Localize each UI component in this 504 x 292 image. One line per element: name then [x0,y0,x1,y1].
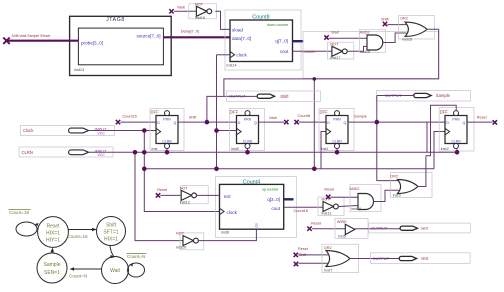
svg-text:inst: inst [152,147,159,151]
state machine: self loop on Reset (Count/=16) [9,210,39,237]
net label Wait (DFF2 Q) [269,116,277,120]
net label Sample (DFF3 Q) [354,115,367,119]
wire Count16 X to DFF1 D [120,121,156,123]
wire Reset X to NOT inst12 [160,194,181,196]
svg-text:Q: Q [463,121,466,125]
state machine: state Wait [102,257,129,284]
svg-text:Shift: Shift [280,94,289,99]
svg-text:Shift: Shift [381,18,390,22]
wire NOT inst20 output to Count4 bottom port [198,229,256,240]
svg-text:inst15: inst15 [360,50,370,54]
svg-text:Sample: Sample [436,93,451,98]
junction CLRN DFF4 [455,150,460,155]
and gate inst15 [359,30,385,54]
not gate inst12 [180,186,209,205]
junction CLRN riser x144 [142,150,147,155]
node Reset X marker (to WIRE inst5) [307,227,311,231]
svg-text:Reset: Reset [477,116,488,120]
svg-text:OUTPUT: OUTPUT [371,226,388,231]
svg-text:inst13: inst13 [74,68,84,72]
wire Sample vertical to OR2 inst9 top input [377,96,400,181]
wire Wait X to AND2 inst15 top input [329,37,367,39]
wire Reset X to buffer inst5 [312,228,345,230]
wire CLRN riser DFF2 [247,149,249,152]
net label Shift (to OR2 inst7) [299,253,308,257]
svg-text:WIRE: WIRE [337,220,347,224]
svg-text:Count16: Count16 [294,209,308,213]
svg-text:Q: Q [344,121,347,125]
or gate inst9 [390,173,432,198]
svg-text:data[7..0]: data[7..0] [232,36,251,41]
svg-text:Count16: Count16 [122,115,136,119]
wire OR2 inst16 output down-left [224,29,439,96]
output pin HIY [369,223,471,233]
svg-text:JTAG8: JTAG8 [106,17,125,23]
node Reset X marker (to OR2 inst7) [294,253,298,257]
or gate inst16 [399,16,435,42]
wire Shift X to OR2 inst7 bottom input [298,262,328,264]
wire DFF4 clock riser [434,132,445,169]
wire AND2 inst19 output to OR2 inst9 [374,190,399,201]
svg-text:CountN: CountN [302,50,315,54]
svg-text:inst0: inst0 [231,147,239,151]
svg-text:Q: Q [254,121,257,125]
net label CountN (cout of Count8) [302,50,315,54]
svg-text:Count8: Count8 [252,14,269,20]
svg-text:PRN: PRN [452,118,460,122]
node Wait X terminator [284,120,288,124]
svg-text:D: D [446,121,449,125]
svg-text:Count=N: Count=N [127,254,145,259]
svg-text:AND2: AND2 [349,187,359,191]
junction Shift output riser [205,120,210,125]
svg-text:Sample: Sample [44,262,61,268]
wire Wait X to NOT inst18 input [174,10,196,12]
svg-text:NOT: NOT [176,232,185,236]
svg-text:Reset: Reset [298,247,309,251]
wire OR2 inst7 output to HIX pin [350,258,399,260]
wire DFF1 Q to DFF2 D (Shift net) [178,121,237,123]
svg-text:Count=16: Count=16 [68,234,88,239]
svg-text:Q: Q [174,121,177,125]
svg-text:D: D [157,121,160,125]
svg-text:CountN: CountN [298,114,311,118]
not gate inst11 [318,197,344,216]
svg-text:HIY=1: HIY=1 [46,238,60,244]
wire Reset X to OR2 inst7 top input [298,254,328,256]
wire DFF4 Q to Reset X [467,121,493,123]
wire clock distribution horizontal y168.8 [144,168,434,170]
wire CLRN riser DFF3 [336,149,338,152]
svg-text:NOT: NOT [180,187,189,191]
svg-text:D: D [238,121,241,125]
wire branch down to distribution line [313,79,315,169]
wire Shift X to OR2 inst16 top input [387,24,407,26]
bus wire into probe[3..0] [8,40,79,42]
net label Wait (top) [177,6,185,10]
svg-text:VCC: VCC [98,153,106,157]
buffer (WIRE primitive) inst5 [335,219,368,239]
node Reset X marker (to AND2 inst19) [326,195,330,199]
svg-text:Delay[7..0]: Delay[7..0] [181,29,199,33]
node Reset X terminator [493,120,497,124]
node Shift X marker (to OR2 inst16) [383,22,387,26]
svg-text:CLRN: CLRN [451,140,461,144]
svg-text:up counter: up counter [262,187,280,191]
wire NOT inst11 output to AND2 inst19 [338,206,358,207]
svg-text:Sample: Sample [354,115,367,119]
dff flip-flop inst2 (DFF4) [439,108,474,152]
wire AND2 inst15 output to OR2 inst16 [383,33,407,43]
node Count16 X marker (DFF1 D) [116,120,120,124]
state machine: edge Shift to Wait [110,246,115,259]
svg-text:OR2: OR2 [390,175,398,179]
wire Shift riser to OUTPUT pin [207,96,257,122]
svg-text:Wait: Wait [110,268,120,274]
svg-text:Wait: Wait [331,30,339,34]
wire CLRN riser DFF1 [166,149,168,152]
svg-text:OUTPUT: OUTPUT [373,256,390,261]
or gate inst7 [322,244,359,272]
svg-text:DFF: DFF [320,109,329,114]
wire Count8 cout to NOT inst17 [293,50,332,52]
svg-text:clock: clock [236,52,247,57]
svg-text:VCC: VCC [98,131,106,135]
svg-text:CLRN: CLRN [243,140,253,144]
block JTAG8 inst13 [70,16,172,75]
wire Reset X to AND2 inst19 top input [331,196,358,198]
svg-text:inst5: inst5 [338,235,346,239]
svg-text:OUTPUT: OUTPUT [229,94,246,99]
node Wait X marker (to AND2 inst15) [324,35,328,39]
wire DFF3 Q to DFF4 D (Sample net) [348,121,445,123]
wire Sample riser to OUTPUT pin [377,95,414,97]
node Shift X marker (to OR2 inst7) [294,262,298,266]
junction CLRN DFF1 [165,150,170,155]
svg-text:inst2: inst2 [441,147,449,151]
state machine: self loop on Wait (Count/=N) [127,254,147,278]
output pin Sample [377,91,471,102]
not gate inst18 [189,2,217,20]
svg-text:HIX=1: HIX=1 [104,237,118,243]
junction CLRN DFF3 [335,150,340,155]
svg-text:cout: cout [271,206,280,211]
svg-text:PRN: PRN [244,118,252,122]
net label Reset (DFF4 Q) [477,116,488,120]
svg-text:inst19: inst19 [351,207,361,211]
svg-text:SFT=1: SFT=1 [103,230,118,236]
svg-text:CLRN: CLRN [162,140,172,144]
net label Delay[7..0] [181,29,199,33]
junction x144 y168.8 [142,167,147,172]
svg-text:HIY: HIY [421,226,428,231]
svg-text:inst20: inst20 [176,246,186,250]
net label Shift (OR2 input) [381,18,390,22]
output pin Shift [227,91,321,102]
wire preset feed to DFF4 PRN [426,105,456,156]
svg-text:DFF: DFF [440,109,449,114]
svg-text:source[7..0]: source[7..0] [136,33,160,38]
counter block Count8 inst14 [225,10,301,70]
svg-text:probe[3..0]: probe[3..0] [81,40,103,45]
net label Count16 (Count4 cout) [294,209,308,213]
net label CountN (DFF3 D) [298,114,311,118]
dff flip-flop inst (DFF1) [150,109,184,152]
svg-text:q[3..0]: q[3..0] [267,197,280,202]
junction CLRN inst20 riser [133,150,138,155]
selection box around top-right gate group [303,32,439,79]
svg-text:SEN=1: SEN=1 [44,270,60,276]
svg-text:Shift: Shift [106,223,117,229]
svg-text:Clock: Clock [23,128,34,133]
bus stub q[3..0] of Count4 [284,198,294,200]
junction at y78.9 branch [313,77,317,81]
and gate inst19 [349,185,381,212]
bus stub q[7..0] of Count8 [293,40,304,42]
net label Count16 (DFF1 D) [122,115,136,119]
wire clock riser x216.5 Count8-DFF2 [216,55,218,169]
wire buffer inst5 output to HIY pin [355,228,400,230]
svg-text:Reset: Reset [311,221,322,225]
net label Reset (to inst12) [157,188,168,192]
net label Reset (to OR2 inst7) [298,247,309,251]
wire Count8 clock feed [217,54,231,56]
net label Shift (DFF1 Q) [189,116,198,120]
wire NOT inst17 output to AND2 inst15 [347,46,367,51]
junction clock-DFF2 riser [214,128,219,133]
wire clock riser x144 down to Count4 clock [144,131,219,212]
node probe input X marker [3,38,9,44]
input pin CLRN [19,147,113,157]
svg-text:Count=16: Count=16 [9,210,29,215]
svg-text:OR2: OR2 [324,246,332,250]
wire CountN X to DFF3 D [299,121,326,123]
junction CLRN DFF2 [245,150,250,155]
svg-text:inst17: inst17 [330,56,340,60]
wire NOT inst18 output to sload [215,11,230,29]
node Reset X marker (to inst12) [156,193,160,197]
svg-text:q[7..0]: q[7..0] [275,39,288,44]
svg-text:OR2: OR2 [400,17,408,21]
state machine: state Shift [97,217,126,246]
svg-text:DFF: DFF [230,109,239,114]
svg-text:inst9: inst9 [393,194,401,198]
svg-text:Reset: Reset [46,224,60,230]
state machine: edge Reset to Shift (Count=16) [68,228,97,239]
svg-text:Count4: Count4 [243,180,260,186]
not gate inst20 [176,232,204,250]
svg-text:HIX=1: HIX=1 [46,231,60,237]
junction Sample output riser [375,120,380,125]
wire OR2 inst9 output up to DFF4 preset [418,156,426,187]
net label Reset (to WIRE inst5) [311,221,322,225]
svg-text:inst18: inst18 [195,16,205,20]
svg-text:inst8: inst8 [221,231,229,235]
svg-text:Count=N: Count=N [69,274,87,279]
svg-text:down counter: down counter [267,23,289,27]
state machine: edge Wait to Sample (Count=N) [69,267,102,278]
svg-text:CLRN: CLRN [22,150,33,155]
svg-text:AND2: AND2 [360,30,370,34]
bus wire source to data (Delay[7..0]) [163,36,230,38]
svg-text:sclr: sclr [224,194,232,199]
not gate inst17 [327,42,353,60]
junction x216.5 y168.8 [214,167,219,172]
dff flip-flop inst1 (DFF3) [319,109,354,152]
svg-text:Wait: Wait [269,116,277,120]
wire CLRN distribution [89,151,458,153]
junction clock-DFF1 riser [142,128,147,133]
svg-text:Shift: Shift [189,116,198,120]
input pin Clock [21,126,115,136]
state machine: edge Sample to Reset [50,248,54,253]
svg-text:inst1: inst1 [321,147,329,151]
svg-text:inst7: inst7 [324,269,332,273]
svg-text:inst16: inst16 [402,38,412,42]
net label Reset (to AND2 inst19) [324,187,335,191]
svg-text:clock: clock [227,210,238,215]
svg-text:D: D [327,121,330,125]
svg-text:cin: cin [255,223,259,227]
wire Clock pin to DFF1 clock [89,130,157,132]
svg-text:PRN: PRN [333,118,341,122]
wire NOT inst12 output to sclr [197,194,220,196]
wire DFF2 Q to Wait X [259,121,285,123]
svg-text:OUTPUT: OUTPUT [385,93,402,98]
svg-text:CLRN: CLRN [332,140,342,144]
svg-text:HIX: HIX [421,256,428,261]
counter block Count4 inst8 [216,177,297,238]
svg-text:Wait: Wait [177,6,185,10]
svg-text:NOT: NOT [330,42,339,46]
wire DFF3 clock riser [321,132,326,169]
svg-text:Reset: Reset [324,187,335,191]
node Wait X marker (to inst18) [169,9,173,13]
state machine: state Sample [37,253,67,283]
svg-text:cout: cout [280,49,289,54]
svg-text:PRN: PRN [163,118,171,122]
svg-text:sload: sload [232,27,243,32]
svg-text:Shift,Wait,Sample /Reset: Shift,Wait,Sample /Reset [12,34,51,38]
svg-text:inst11: inst11 [322,211,332,215]
net label Wait (AND2 input) [331,30,339,34]
dff flip-flop inst0 (DFF2) [230,109,265,152]
wire CLRN riser DFF4 [456,149,458,152]
node CountN X marker (DFF3 D) [294,120,298,124]
svg-text:inst12: inst12 [180,200,190,204]
net label Shift,Wait,Sample/Reset [12,34,51,38]
state machine: state Reset [38,217,69,248]
svg-text:NOT: NOT [195,2,204,6]
wire CLRN riser down to NOT inst20 [135,152,183,240]
wire DFF2 clock feed [217,130,237,132]
svg-text:inst14: inst14 [227,63,237,67]
output pin HIX [371,253,471,264]
wire vertical stub x427 Sample to CLRN [426,122,428,152]
wire Count4 cout to NOT inst11 [284,206,323,208]
svg-text:DFF: DFF [151,109,160,114]
junction preset net y168.8 [312,167,317,172]
svg-text:Reset: Reset [157,188,168,192]
